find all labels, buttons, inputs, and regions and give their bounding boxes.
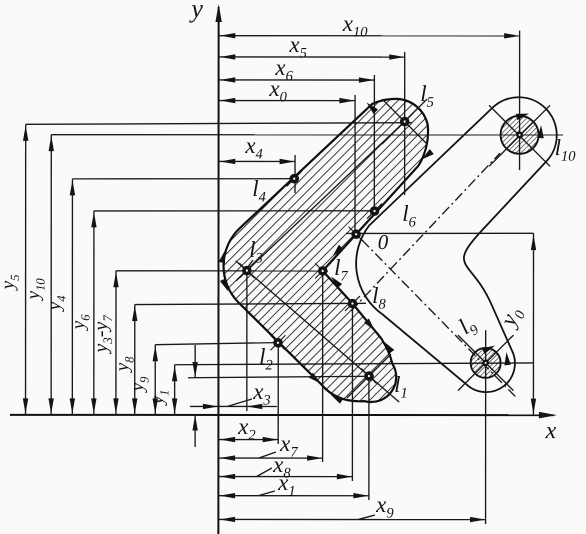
point l4 xyxy=(287,171,302,186)
centerline l9 diag 2 xyxy=(458,335,514,391)
point l3 xyxy=(239,263,254,278)
leader x1 xyxy=(259,491,275,496)
centerline l5 diag 2 xyxy=(382,99,427,144)
arrow y6 bottom xyxy=(91,398,96,414)
direction arrow l1 circle bottom xyxy=(329,392,343,404)
leader x9 xyxy=(359,515,375,519)
direction arrow l10 hole right xyxy=(537,125,544,138)
dimension line y6 xyxy=(93,211,95,415)
ext line from point 0 to y0 xyxy=(346,232,534,234)
centerline l10 diag 2 xyxy=(489,105,550,166)
arrow l1-level up xyxy=(192,415,197,431)
direction arrow notch edge down xyxy=(364,319,377,333)
outline chevron contour xyxy=(356,97,557,392)
ext line x4 at l4 xyxy=(294,155,296,193)
ext line l8 down to x8 xyxy=(351,304,353,481)
dimension line y9 xyxy=(154,345,156,415)
dimension line y3-y7 xyxy=(115,271,117,415)
arrow y9 bottom xyxy=(153,398,158,414)
leader x7 xyxy=(259,452,276,458)
dash-dot axis through corner to l10 xyxy=(351,153,500,311)
axis line l3 through l1 xyxy=(235,261,399,402)
hole l9 hatched xyxy=(471,348,501,378)
ext line l7 down to x7 xyxy=(322,271,324,462)
arrow x8 left xyxy=(220,474,236,479)
x-axis arrow xyxy=(539,412,557,418)
y-axis xyxy=(217,7,219,534)
svg-text:0: 0 xyxy=(378,230,389,254)
centerline l1 diagonal xyxy=(347,354,391,398)
centerline l10 diag 1 xyxy=(489,105,550,166)
direction arrow notch edge up xyxy=(381,340,394,354)
dimension line x6 xyxy=(219,79,375,81)
dim line l1-level upper outside xyxy=(194,345,196,378)
dimension line y1 xyxy=(174,365,176,415)
point l7 xyxy=(315,263,330,278)
ext line l3 down to x3 xyxy=(246,271,248,411)
arrow x9 right xyxy=(470,517,486,522)
centerline l9 diag 1 xyxy=(458,335,514,391)
point 0 origin xyxy=(349,227,364,242)
arrow y5 top xyxy=(23,125,28,141)
point l2 xyxy=(270,335,285,350)
point l1 xyxy=(361,369,376,384)
arrow y10 top xyxy=(49,136,54,152)
direction arrow l8 to l7 xyxy=(329,274,342,288)
ext line y1 through l9 xyxy=(175,363,534,365)
direction arrow corner top xyxy=(219,249,229,263)
point l6 xyxy=(367,204,382,219)
arrow x4 left xyxy=(220,159,236,164)
arrow y0 bottom xyxy=(531,399,536,415)
svg-text:y: y xyxy=(188,0,203,23)
arrow x1 left xyxy=(220,493,236,498)
arrow y1 top xyxy=(172,366,177,382)
arrow y8 bottom xyxy=(132,398,137,414)
direction arrow corner bottom xyxy=(220,278,231,292)
path segment 0 to l7 xyxy=(323,234,356,271)
ext line x0 to point 0 xyxy=(354,95,356,234)
dimension line y0 xyxy=(532,233,534,415)
x-axis xyxy=(10,414,554,416)
ext line l9 down to x9 xyxy=(485,330,487,524)
y-axis arrow xyxy=(215,4,221,22)
direction arrow at l5 top xyxy=(364,100,378,114)
arrow x7 left xyxy=(220,455,236,460)
arrow y9 top xyxy=(153,346,158,362)
x3 left outside arrow xyxy=(203,404,219,409)
ext line l1 level xyxy=(188,376,374,378)
ext line y6 to l6 xyxy=(94,210,378,212)
direction arrow inner edge xyxy=(420,149,434,162)
dimension line y4 xyxy=(71,179,73,415)
svg-text:x: x xyxy=(545,418,557,444)
arrow y5 bottom xyxy=(23,398,28,414)
axis line l3 to l5 xyxy=(236,121,405,280)
ext line y3-y7 to l7 xyxy=(116,270,328,272)
dimension line y5 xyxy=(25,124,27,414)
dimension line x5 xyxy=(219,56,405,58)
arrow y8 top xyxy=(132,306,137,322)
arrow y3-y7 top xyxy=(113,272,118,288)
arrow x5 left xyxy=(220,54,236,59)
point l5 xyxy=(397,114,412,129)
centerline l5 diag 1 xyxy=(382,99,427,144)
arrow l1-level down xyxy=(192,362,197,378)
point l10 center xyxy=(516,131,523,138)
dimension line x4 xyxy=(219,160,295,162)
arrow y3-y7 bottom xyxy=(113,398,118,414)
hatched chevron part outline xyxy=(223,99,428,402)
ext line y8 to l8 xyxy=(135,303,366,304)
dimension line x8 xyxy=(218,476,352,478)
arrow y4 bottom xyxy=(70,398,75,414)
arrow x10 right xyxy=(504,33,520,38)
direction arrow lower edge xyxy=(309,373,323,386)
arrow y1 bottom xyxy=(172,398,177,414)
dimension line y8 xyxy=(134,305,136,415)
arrow x1 right xyxy=(353,493,369,498)
ext line y4 to l4 xyxy=(72,178,299,180)
arrow x10 left xyxy=(220,33,236,38)
arrow y6 top xyxy=(91,212,96,228)
point l9 center xyxy=(482,359,489,366)
point l8 xyxy=(345,296,360,311)
ext line l2 down to x2 xyxy=(277,342,279,444)
arrow x9 left xyxy=(220,517,236,522)
ext line y5 to l5 xyxy=(26,122,412,124)
arrow x8 right xyxy=(337,474,353,479)
leader x8 xyxy=(257,468,272,476)
ext line l1 down to x1 xyxy=(368,376,370,500)
ext line l10 vertical xyxy=(519,31,521,170)
dim line l1-level lower outside xyxy=(194,415,196,447)
dash-dot axis through corner to l9 xyxy=(362,240,517,398)
ext line y9 to l2 xyxy=(155,342,283,344)
arrow x6 right xyxy=(359,77,375,82)
dimension line x10 xyxy=(219,35,520,37)
dimension line x9 xyxy=(218,518,485,520)
dimension line x1 xyxy=(218,495,368,497)
arrow x4 right xyxy=(280,159,296,164)
ext line l5 vertical xyxy=(404,52,406,195)
arrow x2 right xyxy=(263,437,279,442)
arrow x2 left xyxy=(220,437,236,442)
arrow x7 right xyxy=(307,455,323,460)
leader x3 xyxy=(228,399,252,406)
arrow y10 bottom xyxy=(48,398,53,414)
ext line x6 to l6 xyxy=(373,75,375,211)
leader l3 xyxy=(247,260,253,268)
dimension line x0 xyxy=(219,100,355,102)
arrow x6 left xyxy=(220,77,236,82)
direction arrow on 0-l7 xyxy=(330,245,343,259)
ext line y10 through l10 xyxy=(51,134,563,136)
arrow y4 top xyxy=(70,180,75,196)
arrow x0 right xyxy=(339,98,355,103)
hole l10 hatched xyxy=(501,116,539,154)
dimension line x2 xyxy=(218,439,278,441)
dimension line y10 xyxy=(50,135,52,415)
dimension line x3 xyxy=(190,405,277,407)
direction arrow l10 hole top xyxy=(516,111,530,121)
dimension line x7 xyxy=(218,457,322,459)
direction arrow l9 hole top xyxy=(482,343,496,354)
arrow y0 top xyxy=(531,235,536,251)
direction arrow l9 hole right xyxy=(503,352,511,366)
x3 right outside arrow xyxy=(247,404,263,409)
arrow x0 left xyxy=(220,98,236,103)
arrow x5 right xyxy=(389,54,405,59)
